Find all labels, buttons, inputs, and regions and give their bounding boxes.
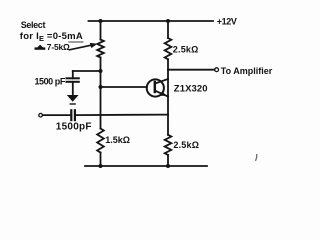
svg-text:+12V: +12V <box>217 16 237 26</box>
svg-text:To Amplifier: To Amplifier <box>221 66 273 76</box>
node junction bottom-right <box>166 164 170 168</box>
svg-text:1500pF: 1500pF <box>56 122 92 133</box>
wire input to emitter rail <box>75 114 168 117</box>
transistor Q1 Z1X320 <box>147 79 168 97</box>
wire top supply rail <box>89 20 214 22</box>
svg-text:Select: Select <box>21 20 46 30</box>
stray scan tick <box>256 155 257 161</box>
wire bottom rail <box>85 165 207 167</box>
select marker symbol <box>36 45 44 49</box>
wire left branch middle <box>100 58 102 129</box>
node output terminal To Amplifier <box>215 68 219 72</box>
resistor 2.5k emitter body <box>165 135 172 155</box>
wire left branch lower <box>100 153 102 167</box>
wire right branch lower <box>167 155 169 166</box>
svg-text:Z1X320: Z1X320 <box>174 83 208 94</box>
node junction top-left <box>99 19 103 23</box>
node junction left cap tap <box>99 69 103 73</box>
svg-text:2.5kΩ: 2.5kΩ <box>173 140 199 150</box>
resistor 2.5k collector body <box>165 38 172 59</box>
label mA underline <box>69 41 84 43</box>
wire base link <box>101 86 147 88</box>
ground <box>67 95 79 104</box>
node junction bottom-left <box>99 164 103 168</box>
wire shunt capacitor link <box>73 70 101 72</box>
node input terminal <box>39 113 43 117</box>
node junction base tap <box>99 85 103 89</box>
svg-text:1.5kΩ: 1.5kΩ <box>105 135 130 145</box>
wire input line <box>43 114 72 116</box>
svg-text:2.5kΩ: 2.5kΩ <box>173 45 199 55</box>
resistor 7.5k potentiometer body <box>97 40 104 58</box>
wire output tap <box>168 69 215 71</box>
capacitor 1500pF series <box>71 110 75 120</box>
node junction top-right <box>166 19 170 23</box>
svg-text:1500 pF: 1500 pF <box>35 76 66 86</box>
resistor 1.5k body <box>97 129 104 153</box>
wire left branch upper <box>100 21 102 40</box>
potentiometer wiper arrow <box>70 43 98 50</box>
wire right branch upper <box>167 21 169 38</box>
capacitor 1500pF shunt <box>67 71 79 95</box>
wire right branch middle <box>167 59 169 135</box>
svg-text:7-5kΩ: 7-5kΩ <box>47 42 70 52</box>
